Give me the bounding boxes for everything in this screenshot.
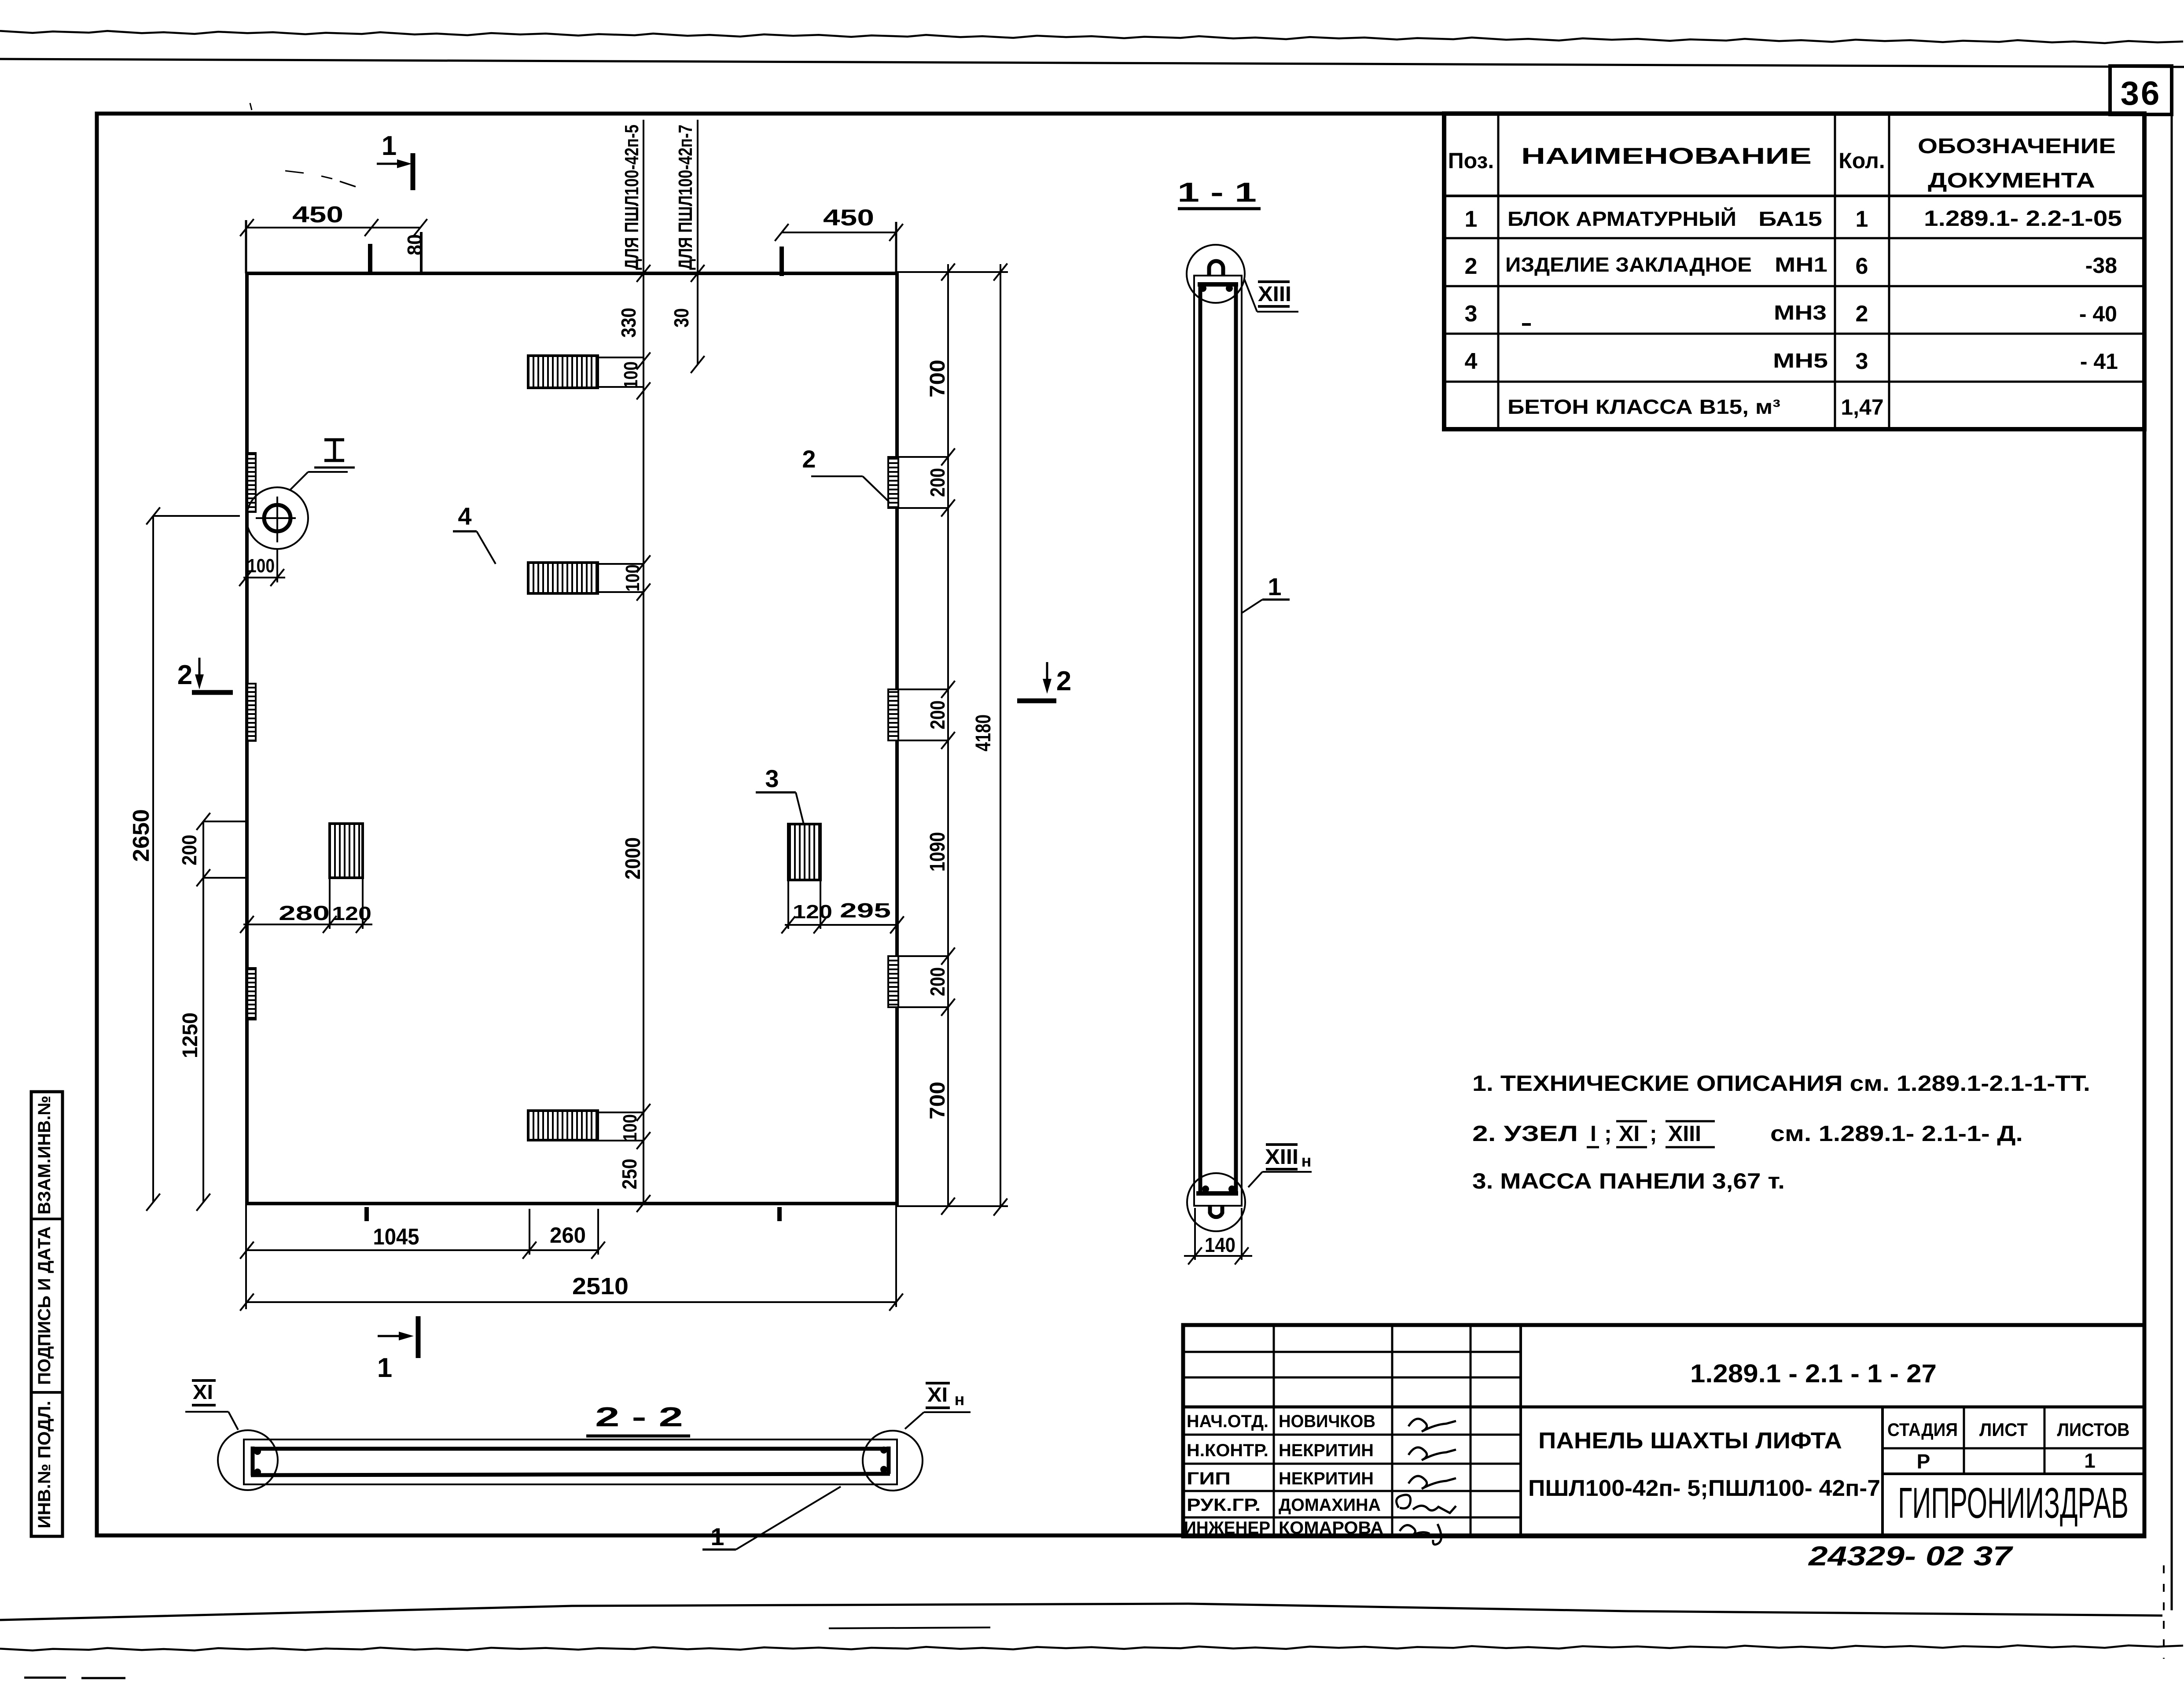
svg-text:3: 3 [1856, 349, 1868, 374]
svg-text:ПОДПИСЬ И ДАТА: ПОДПИСЬ И ДАТА [35, 1226, 54, 1385]
dimensions 280 and 120 left square [240, 878, 372, 933]
section mark 1 bottom [377, 1316, 418, 1383]
overall dimension 4180 [972, 264, 1007, 1216]
svg-text:80: 80 [403, 234, 426, 255]
svg-text:Н.КОНТР.: Н.КОНТР. [1187, 1441, 1268, 1460]
section 1-1 title [1177, 177, 1261, 209]
svg-text:МН1: МН1 [1775, 253, 1827, 276]
detail I target circle [246, 487, 308, 549]
svg-text:2650: 2650 [129, 809, 154, 862]
leader 1 section 2-2 [702, 1487, 841, 1550]
svg-text:280: 280 [279, 902, 330, 924]
table row 2 Изделие закладное МН1 [1465, 253, 2117, 279]
svg-text:24329- 02 37: 24329- 02 37 [1808, 1541, 2013, 1572]
label XI [185, 1380, 238, 1430]
embedded plate МН1 left edge bottom [247, 968, 256, 1020]
leader 3 to right square [756, 765, 804, 824]
dimension 2650 [129, 508, 240, 1211]
svg-text:1250: 1250 [179, 1012, 202, 1058]
svg-text:н: н [955, 1391, 965, 1409]
svg-text:3: 3 [765, 765, 779, 792]
dimension 1045 [240, 1209, 536, 1259]
svg-text:СТАДИЯ: СТАДИЯ [1887, 1419, 1958, 1440]
centre dimension line for ПШЛ100-42п-7 [691, 120, 704, 373]
embedded plate МН1 left edge middle [247, 684, 256, 741]
svg-text:МН5: МН5 [1773, 349, 1828, 372]
detail circle XI right [863, 1431, 923, 1491]
svg-text:700: 700 [926, 1082, 949, 1119]
svg-text:XIII: XIII [1265, 1145, 1298, 1169]
plan edge extension lines [246, 220, 1008, 1309]
svg-text:4: 4 [1465, 349, 1478, 374]
dimension 100 second centre plate [598, 556, 651, 601]
section mark 1 top [377, 131, 413, 190]
label XI н [905, 1383, 971, 1429]
title block Стадия Лист Листов [1887, 1419, 2130, 1440]
svg-text:НАИМЕНОВАНИЕ: НАИМЕНОВАНИЕ [1521, 144, 1812, 169]
svg-text:1: 1 [710, 1523, 724, 1550]
detail circle XIII bottom [1187, 1173, 1245, 1231]
dimensions 120 and 295 right square [781, 880, 904, 934]
svg-text:;: ; [1604, 1121, 1612, 1146]
svg-text:100: 100 [620, 361, 642, 389]
scan edge wavy line top [0, 31, 2183, 43]
svg-text:2: 2 [1856, 301, 1868, 327]
note 2 узлы [1472, 1121, 2023, 1147]
svg-text:36: 36 [2121, 75, 2162, 112]
section mark 2 left [177, 658, 233, 692]
svg-text:1: 1 [2084, 1449, 2096, 1472]
svg-text:ПШЛ100-42п- 5;ПШЛ100- 42п-7: ПШЛ100-42п- 5;ПШЛ100- 42п-7 [1528, 1476, 1880, 1501]
svg-text:2: 2 [177, 660, 192, 690]
svg-text:РУК.ГР.: РУК.ГР. [1187, 1495, 1261, 1515]
dimension 100 bottom centre plate [598, 1104, 651, 1149]
svg-text:330: 330 [617, 308, 640, 338]
svg-text:см. 1.289.1- 2.1-1- Д.: см. 1.289.1- 2.1-1- Д. [1770, 1121, 2023, 1146]
detail I leader and label [290, 440, 355, 490]
svg-text:- 41: - 41 [2080, 349, 2118, 374]
svg-text:НОВИЧКОВ: НОВИЧКОВ [1279, 1412, 1375, 1431]
svg-text:1 - 1: 1 - 1 [1177, 177, 1257, 208]
title block names [1279, 1412, 1383, 1538]
svg-text:3: 3 [1465, 301, 1478, 327]
title block roles [1184, 1412, 1270, 1538]
svg-text:XI: XI [1619, 1121, 1640, 1146]
svg-text:;: ; [1650, 1121, 1657, 1146]
svg-text:1: 1 [382, 131, 397, 161]
svg-text:1.289.1- 2.2-1-05: 1.289.1- 2.2-1-05 [1924, 206, 2122, 231]
svg-text:100: 100 [622, 564, 643, 592]
dimension 260 [529, 1209, 605, 1259]
svg-text:XI: XI [927, 1383, 948, 1406]
embedded plate МН1 right edge bottom [888, 956, 898, 1007]
svg-text:1. ТЕХНИЧЕСКИЕ ОПИСАНИЯ см.: 1. ТЕХНИЧЕСКИЕ ОПИСАНИЯ см. 1.289.1-2.1-… [1472, 1071, 2090, 1096]
svg-text:ЛИСТ: ЛИСТ [1979, 1419, 2028, 1440]
svg-text:ИНЖЕНЕР: ИНЖЕНЕР [1184, 1518, 1270, 1538]
dimension 2510 [240, 1273, 903, 1311]
centre dimension line for ПШЛ100-42п-5 [636, 120, 650, 1204]
leader 4 to second centre plate [453, 502, 496, 564]
svg-text:ИЗДЕЛИЕ ЗАКЛАДНОЕ: ИЗДЕЛИЕ ЗАКЛАДНОЕ [1505, 253, 1752, 276]
svg-text:- 40: - 40 [2079, 302, 2117, 326]
svg-text:1: 1 [1465, 206, 1478, 232]
svg-text:-38: -38 [2085, 253, 2117, 278]
svg-text:ГИП: ГИП [1187, 1469, 1231, 1488]
svg-text:2: 2 [1056, 666, 1071, 696]
svg-text:ДЛЯ ПШЛ100-42п-7: ДЛЯ ПШЛ100-42п-7 [675, 125, 696, 270]
svg-text:120: 120 [332, 903, 371, 924]
svg-text:ОБОЗНАЧЕНИЕ: ОБОЗНАЧЕНИЕ [1918, 135, 2116, 158]
svg-text:200: 200 [926, 468, 949, 497]
detail circle XIII top [1187, 245, 1245, 303]
connector lines top centre plate [598, 357, 643, 387]
svg-text:ДОМАХИНА: ДОМАХИНА [1279, 1495, 1381, 1515]
table row Бетон класса В15 [1507, 395, 1884, 420]
title block grid [1183, 1325, 2144, 1536]
svg-text:2510: 2510 [572, 1273, 629, 1299]
detail circle XI left [218, 1430, 278, 1490]
label XIII н [1248, 1145, 1312, 1187]
svg-text:3. МАССА ПАНЕЛИ 3,67 т.: 3. МАССА ПАНЕЛИ 3,67 т. [1472, 1169, 1785, 1193]
svg-text:XIII: XIII [1258, 283, 1291, 306]
embedded plate МН1 left edge top [247, 453, 256, 512]
svg-text:2 - 2: 2 - 2 [595, 1402, 683, 1432]
title block signatures [1397, 1419, 1456, 1545]
page number box 36 [2110, 66, 2172, 114]
sheet top edge line [0, 59, 2184, 67]
svg-text:ИНВ.№ ПОДЛ.: ИНВ.№ ПОДЛ. [35, 1401, 54, 1528]
svg-text:4: 4 [458, 502, 471, 530]
dimension 450 top right [775, 205, 903, 276]
section 2-2 panel outline [244, 1439, 897, 1484]
dimension 80 top [371, 219, 427, 275]
svg-text:450: 450 [823, 205, 874, 231]
dimension 140 [1184, 1208, 1252, 1265]
section 2-2 reinforcement block [251, 1447, 890, 1476]
right chain connector lines [899, 457, 948, 1007]
lifting loop bottom [1210, 1206, 1222, 1217]
svg-text:30: 30 [670, 308, 693, 328]
table row 4 МН5 [1465, 349, 2118, 374]
svg-text:НАЧ.ОТД.: НАЧ.ОТД. [1187, 1412, 1268, 1431]
svg-text:ПАНЕЛЬ ШАХТЫ ЛИФТА: ПАНЕЛЬ ШАХТЫ ЛИФТА [1538, 1428, 1842, 1454]
section 1-1 reinforcement block БА15 [1196, 284, 1238, 1193]
svg-text:2. УЗЕЛ: 2. УЗЕЛ [1472, 1121, 1578, 1146]
svg-text:200: 200 [926, 700, 949, 729]
svg-text:2: 2 [1465, 254, 1478, 279]
embedded plate МН1 right edge middle [888, 689, 898, 740]
dimension 100 at detail I [239, 549, 285, 586]
svg-text:1,47: 1,47 [1841, 395, 1883, 420]
svg-text:ВЗАМ.ИНВ.№: ВЗАМ.ИНВ.№ [35, 1096, 54, 1215]
svg-text:ДЛЯ ПШЛ100-42п-5: ДЛЯ ПШЛ100-42п-5 [621, 125, 643, 270]
svg-text:КОМАРОВА: КОМАРОВА [1279, 1518, 1383, 1538]
svg-text:200: 200 [926, 967, 949, 996]
sheet right edge line [2164, 114, 2172, 1659]
svg-text:НЕКРИТИН: НЕКРИТИН [1279, 1441, 1374, 1460]
svg-text:1.289.1 - 2.1 - 1 - 27: 1.289.1 - 2.1 - 1 - 27 [1690, 1359, 1937, 1388]
svg-text:295: 295 [840, 899, 891, 922]
svg-text:I: I [1590, 1121, 1596, 1146]
svg-text:2000: 2000 [621, 837, 645, 880]
svg-text:260: 260 [550, 1223, 586, 1248]
sheet bottom edge line [0, 1604, 2162, 1620]
svg-text:4180: 4180 [972, 714, 995, 751]
dimension 200 left [178, 813, 245, 1211]
right dimension chain line [941, 264, 955, 1215]
label XIII [1244, 279, 1298, 312]
section 1-1 panel outline [1194, 276, 1242, 1206]
svg-text:XIII: XIII [1668, 1121, 1701, 1146]
svg-text:1: 1 [1856, 206, 1868, 232]
svg-text:450: 450 [292, 202, 343, 228]
svg-text:Р: Р [1917, 1450, 1930, 1473]
svg-text:1: 1 [1268, 573, 1281, 600]
plan view panel outline [247, 273, 897, 1204]
svg-text:200: 200 [178, 835, 201, 865]
svg-text:100: 100 [247, 555, 275, 577]
table row 3 МН3 [1465, 301, 2117, 327]
embedded plate МН5 second centre [528, 563, 598, 593]
bottom margin dash marks [24, 1627, 990, 1678]
lifting loop top [1209, 261, 1223, 276]
specification table grid [1444, 114, 2144, 429]
section 2-2 title [586, 1402, 690, 1436]
svg-text:Кол.: Кол. [1838, 148, 1885, 173]
svg-text:БЛОК АРМАТУРНЫЙ: БЛОК АРМАТУРНЫЙ [1507, 207, 1736, 230]
embedded plate МН3 right square [788, 824, 820, 880]
section mark 2 right [1017, 662, 1071, 701]
title block stage Р and sheet count 1 [1917, 1449, 2096, 1473]
svg-text:250: 250 [618, 1159, 641, 1189]
hanging marks below bottom edge [367, 1207, 779, 1221]
table header Обозначение документа [1918, 135, 2116, 192]
drawing frame border [97, 114, 2144, 1535]
svg-text:ЛИСТОВ: ЛИСТОВ [2057, 1419, 2130, 1440]
svg-text:700: 700 [926, 360, 949, 398]
svg-text:120: 120 [793, 901, 832, 923]
svg-text:Поз.: Поз. [1448, 148, 1494, 173]
svg-text:ДОКУМЕНТА: ДОКУМЕНТА [1928, 169, 2095, 192]
embedded plate МН3 left square (item 3) [330, 824, 363, 878]
svg-text:XI: XI [193, 1380, 213, 1403]
svg-text:МН3: МН3 [1774, 301, 1827, 324]
svg-text:ГИПРОНИИЗДРАВ: ГИПРОНИИЗДРАВ [1898, 1478, 2129, 1527]
left margin stamp column [31, 1092, 63, 1536]
svg-text:НЕКРИТИН: НЕКРИТИН [1279, 1469, 1374, 1488]
svg-text:БЕТОН КЛАССА В15, м³: БЕТОН КЛАССА В15, м³ [1507, 395, 1780, 418]
svg-text:БА15: БА15 [1758, 207, 1822, 230]
svg-text:1090: 1090 [926, 832, 949, 872]
scan edge wavy line bottom [0, 1646, 2183, 1651]
leader 2 to right edge plate [802, 445, 889, 502]
stray pencil marks top left [250, 103, 356, 187]
embedded plate МН5 bottom centre [528, 1111, 598, 1140]
dimension 250 [618, 1159, 651, 1212]
svg-text:1045: 1045 [373, 1224, 419, 1250]
svg-text:140: 140 [1205, 1233, 1235, 1256]
table row 1 Блок арматурный БА15 [1465, 206, 2122, 232]
svg-text:н: н [1302, 1152, 1312, 1171]
embedded plate МН1 right edge top (item 2) [888, 457, 898, 508]
leader 1 section 1-1 [1242, 573, 1290, 613]
embedded plate МН5 top centre (item 4) [528, 356, 598, 388]
svg-text:2: 2 [802, 445, 816, 473]
dimension 450 top left [240, 202, 378, 274]
svg-text:100: 100 [619, 1114, 641, 1141]
svg-text:6: 6 [1856, 254, 1868, 279]
svg-text:1: 1 [377, 1353, 392, 1383]
